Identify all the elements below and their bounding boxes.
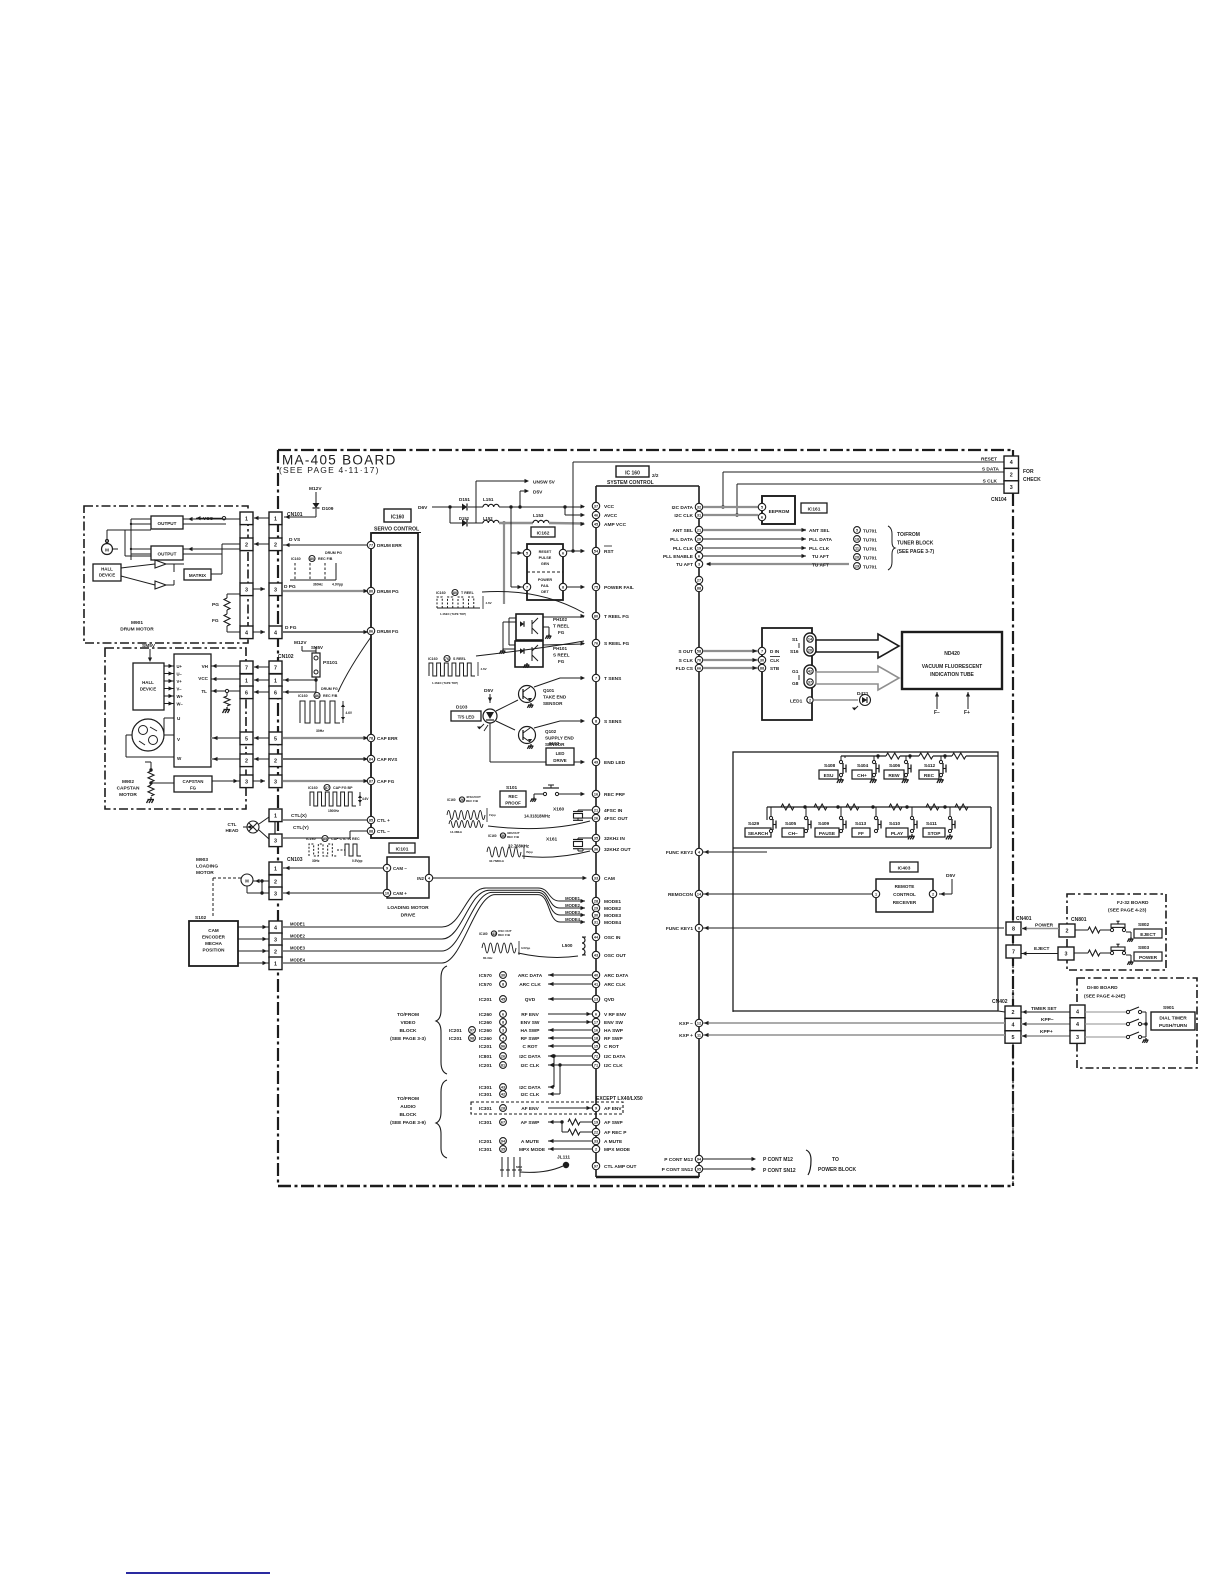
svg-text:1: 1 (274, 678, 277, 684)
svg-text:VIDEO: VIDEO (401, 1020, 416, 1026)
svg-text:31: 31 (594, 921, 598, 925)
svg-text:28: 28 (594, 900, 598, 904)
svg-text:PAUSE: PAUSE (819, 831, 836, 837)
wire T REEL FG (543, 616, 584, 618)
svg-text:30: 30 (594, 914, 598, 918)
svg-text:GEN: GEN (541, 562, 549, 566)
svg-text:IC160: IC160 (391, 515, 405, 521)
svg-text:CTL(Y): CTL(Y) (293, 825, 309, 831)
svg-text:9: 9 (386, 867, 388, 871)
svg-text:4: 4 (245, 630, 248, 636)
svg-text:75: 75 (594, 586, 598, 590)
svg-text:16: 16 (594, 1029, 598, 1033)
wire CAP RVS (283, 758, 367, 760)
svg-text:IC201: IC201 (479, 1044, 492, 1050)
svg-text:ARC DATA: ARC DATA (518, 973, 543, 979)
arc drum FG to waveform (338, 637, 371, 692)
svg-text:35: 35 (594, 837, 598, 841)
svg-text:L500: L500 (562, 943, 573, 948)
svg-text:S REEL: S REEL (453, 657, 467, 661)
svg-text:RF SWP: RF SWP (521, 1036, 540, 1042)
TL pulldown resistor (225, 689, 228, 692)
svg-text:CAM: CAM (604, 876, 615, 882)
svg-text:43: 43 (492, 932, 496, 936)
IC162 label (531, 527, 555, 537)
svg-text:D VS: D VS (289, 537, 301, 543)
svg-text:45: 45 (594, 523, 598, 527)
svg-text:PLL CLK: PLL CLK (809, 546, 830, 552)
svg-text:43: 43 (501, 1086, 505, 1090)
hollow arrow S bus (816, 634, 899, 658)
svg-text:5: 5 (274, 736, 277, 742)
svg-text:71: 71 (594, 1064, 598, 1068)
svg-text:MODE2: MODE2 (604, 906, 621, 912)
svg-text:T/S LED: T/S LED (458, 715, 475, 720)
svg-text:PLL ENABLE: PLL ENABLE (663, 554, 694, 560)
svg-text:49: 49 (594, 761, 598, 765)
svg-text:Q102: Q102 (545, 729, 557, 734)
svg-text:IC201: IC201 (479, 1063, 492, 1069)
svg-text:S101: S101 (506, 785, 518, 791)
svg-text:S408: S408 (824, 763, 836, 769)
svg-text:26: 26 (460, 798, 464, 802)
mode wires 1-4 (283, 888, 585, 927)
svg-text:MP2: MP2 (516, 1165, 523, 1169)
hall device box (drum) (93, 564, 121, 581)
svg-text:IC403: IC403 (898, 866, 911, 872)
POWER FAIL wire (567, 586, 584, 588)
svg-text:AF SWP: AF SWP (521, 1120, 540, 1126)
svg-text:IC801: IC801 (479, 1054, 492, 1060)
S102 wires to connector (238, 926, 269, 928)
svg-text:FF: FF (858, 831, 864, 837)
svg-text:DIAL TIMER: DIAL TIMER (1159, 1016, 1187, 1022)
capstan motor wires (164, 734, 174, 736)
svg-text:FG: FG (212, 618, 219, 624)
G pins stadium (804, 665, 816, 688)
svg-text:FG: FG (558, 659, 565, 664)
connector MODE pins (269, 921, 282, 934)
svg-text:28: 28 (501, 1107, 505, 1111)
connector column CN102 board-side (269, 661, 282, 674)
UNSW 5V branch (475, 481, 477, 523)
svg-text:S16: S16 (790, 649, 799, 655)
svg-text:RF ENV: RF ENV (521, 1012, 539, 1018)
svg-text:87: 87 (369, 780, 373, 784)
svg-text:66: 66 (697, 667, 701, 671)
svg-text:TU701: TU701 (863, 565, 877, 570)
svg-text:CAP RVS: CAP RVS (377, 757, 397, 762)
svg-text:AF ENV: AF ENV (604, 1106, 622, 1112)
svg-text:D6V: D6V (418, 505, 428, 511)
svg-text:CN801: CN801 (1071, 917, 1087, 923)
svg-text:MODE3: MODE3 (565, 910, 581, 915)
svg-text:DRUM FG: DRUM FG (377, 629, 399, 634)
svg-text:5: 5 (1012, 1035, 1015, 1041)
svg-text:TO/FROM: TO/FROM (397, 1012, 419, 1018)
svg-text:I2C CLK: I2C CLK (521, 1063, 540, 1069)
svg-text:43: 43 (594, 954, 598, 958)
svg-text:6: 6 (562, 552, 564, 556)
svg-text:32.768KHz: 32.768KHz (489, 859, 505, 863)
svg-text:V+: V+ (177, 679, 183, 684)
svg-text:ARC CLK: ARC CLK (519, 982, 541, 988)
svg-text:X161: X161 (546, 837, 558, 843)
connector CN103 (269, 862, 282, 875)
svg-text:IC160: IC160 (479, 932, 488, 936)
svg-text:7: 7 (526, 586, 528, 590)
svg-text:TU701: TU701 (863, 538, 877, 543)
svg-text:AUDIO: AUDIO (400, 1104, 416, 1110)
svg-text:V: V (177, 737, 181, 742)
svg-text:PH102: PH102 (553, 617, 567, 622)
svg-text:OUTPUT: OUTPUT (158, 552, 177, 557)
capstan motor symbol (132, 719, 164, 751)
svg-text:FLD CS: FLD CS (676, 666, 694, 672)
svg-text:IC301: IC301 (479, 1085, 492, 1091)
svg-text:POWER: POWER (538, 578, 553, 582)
svg-text:EJECT: EJECT (1140, 932, 1156, 938)
svg-text:T REEL: T REEL (553, 624, 570, 629)
svg-text:1: 1 (274, 516, 277, 522)
footer blue rule (126, 1572, 270, 1574)
svg-text:21: 21 (594, 809, 598, 813)
key box to timer set wire (732, 1011, 734, 1012)
svg-text:W+: W+ (177, 694, 184, 699)
svg-text:96: 96 (501, 1045, 505, 1049)
svg-text:IC160: IC160 (291, 557, 301, 561)
svg-text:ND420: ND420 (944, 651, 960, 657)
svg-text:DEVICE: DEVICE (99, 573, 115, 578)
svg-text:ARC DATA: ARC DATA (604, 973, 629, 979)
led to sensor wires (496, 700, 518, 711)
video block brace (436, 966, 447, 1074)
svg-text:TO/FROM: TO/FROM (897, 532, 920, 538)
svg-text:2: 2 (1066, 929, 1069, 935)
svg-text:S REEL: S REEL (553, 653, 570, 658)
svg-text:TO/FROM: TO/FROM (397, 1096, 419, 1102)
svg-text:S SENS: S SENS (604, 719, 622, 725)
svg-text:12: 12 (697, 1022, 701, 1026)
opto input wires (509, 617, 516, 619)
svg-text:95: 95 (697, 1168, 701, 1172)
svg-text:EEPROM: EEPROM (769, 509, 790, 515)
wire I2C CLK to EEPROM (gray) (703, 514, 758, 516)
svg-text:REC F/B: REC F/B (318, 557, 333, 561)
svg-text:4.6V: 4.6V (362, 797, 369, 801)
svg-text:L151: L151 (483, 497, 494, 502)
svg-text:RESET: RESET (539, 550, 552, 554)
IC403 label (890, 862, 918, 872)
svg-text:4FSC IN: 4FSC IN (604, 808, 623, 814)
svg-text:26: 26 (501, 1055, 505, 1059)
svg-text:4: 4 (274, 630, 277, 636)
svg-text:LED: LED (556, 751, 565, 756)
svg-text:MECHA: MECHA (205, 941, 223, 946)
svg-text:DRUM PG: DRUM PG (325, 551, 342, 555)
svg-text:IC160: IC160 (488, 834, 497, 838)
svg-text:PG: PG (212, 602, 219, 608)
svg-text:1.4SEC (TAPE TOP): 1.4SEC (TAPE TOP) (440, 612, 466, 616)
svg-text:AF REC P: AF REC P (604, 1130, 627, 1136)
svg-text:REC F/B: REC F/B (498, 933, 511, 937)
svg-text:4FSC OUT: 4FSC OUT (604, 816, 628, 822)
svg-text:10: 10 (385, 892, 389, 896)
svg-text:S410: S410 (889, 821, 901, 827)
svg-text:1: 1 (274, 866, 277, 872)
svg-text:AMP VCC: AMP VCC (604, 522, 627, 528)
svg-text:M12V: M12V (294, 640, 307, 646)
svg-text:A MUTE: A MUTE (604, 1139, 623, 1145)
svg-text:P CONT M12: P CONT M12 (664, 1157, 693, 1163)
output amp box 1 (151, 516, 183, 529)
svg-text:KPP−: KPP− (1041, 1017, 1054, 1023)
svg-text:PLAY: PLAY (891, 831, 904, 837)
svg-text:IC201: IC201 (479, 1139, 492, 1145)
svg-text:REC PRF: REC PRF (604, 792, 625, 798)
svg-text:DEVICE: DEVICE (140, 687, 156, 692)
svg-text:76: 76 (445, 657, 449, 661)
key row1 bus risers (877, 756, 879, 759)
svg-text:37: 37 (594, 505, 598, 509)
svg-text:85: 85 (323, 837, 327, 841)
svg-text:P CONT M12: P CONT M12 (763, 1157, 793, 1163)
svg-text:IC201: IC201 (449, 1028, 462, 1034)
svg-text:F+: F+ (964, 710, 970, 716)
transistor Q101 (519, 686, 536, 703)
audio block brace (436, 1080, 447, 1158)
power rail 2 (D152/L152) (449, 507, 451, 523)
svg-text:UNSW 5V: UNSW 5V (533, 480, 556, 486)
svg-text:MATRIX: MATRIX (189, 573, 207, 578)
svg-text:36: 36 (501, 834, 505, 838)
svg-text:3: 3 (245, 779, 248, 785)
svg-text:IC160: IC160 (436, 591, 446, 595)
svg-text:3: 3 (274, 891, 277, 897)
svg-text:ESU: ESU (824, 773, 834, 779)
svg-text:18: 18 (594, 1037, 598, 1041)
svg-text:CONTROL: CONTROL (893, 892, 916, 897)
svg-text:AVCC: AVCC (604, 513, 618, 519)
svg-text:8: 8 (1012, 927, 1015, 933)
wire I2C DATA to EEPROM (gray) (703, 506, 758, 508)
svg-text:14.3MHz: 14.3MHz (450, 830, 463, 834)
svg-text:S412: S412 (924, 763, 936, 769)
IC162 reset/power-fail block (527, 544, 563, 600)
svg-text:REMOCON: REMOCON (668, 892, 694, 898)
buffer amp triangle 2 (155, 581, 166, 589)
hall outputs U+..W- (164, 665, 174, 667)
svg-text:HEAD: HEAD (225, 828, 239, 833)
svg-text:SENSOR: SENSOR (543, 701, 563, 706)
key row2 box (767, 806, 991, 808)
svg-text:TO: TO (832, 1157, 839, 1163)
svg-text:IC160: IC160 (306, 837, 316, 841)
svg-text:6: 6 (595, 1013, 597, 1017)
svg-text:IC160: IC160 (308, 786, 318, 790)
svg-text:F−: F− (934, 710, 940, 716)
svg-text:13: 13 (594, 998, 598, 1002)
svg-text:FJ-32 BOARD: FJ-32 BOARD (1117, 900, 1149, 906)
svg-text:MPX MODE: MPX MODE (519, 1147, 546, 1153)
svg-text:POWER: POWER (1035, 923, 1054, 929)
D5V branch (519, 491, 521, 507)
power block bracket (806, 1150, 811, 1175)
svg-text:85: 85 (369, 819, 373, 823)
svg-text:4: 4 (1010, 460, 1013, 466)
P CONT SN12 row (703, 1168, 755, 1170)
svg-text:EJECT: EJECT (1034, 946, 1050, 952)
svg-text:6: 6 (502, 1013, 504, 1017)
svg-text:LED1: LED1 (790, 699, 803, 705)
svg-text:33: 33 (594, 877, 598, 881)
svg-text:8: 8 (562, 586, 564, 590)
svg-text:TU AFT: TU AFT (812, 563, 829, 569)
opto PH102 (516, 614, 543, 640)
svg-text:ANT SEL: ANT SEL (809, 528, 830, 534)
key matrix outer box (733, 752, 998, 1011)
svg-text:4.6V: 4.6V (481, 667, 487, 671)
svg-text:CN104: CN104 (991, 497, 1007, 503)
svg-text:IC260: IC260 (479, 1012, 492, 1018)
svg-text:L152: L152 (483, 516, 493, 521)
svg-text:26: 26 (594, 817, 598, 821)
key row2 resistors (781, 804, 794, 810)
S102 cam encoder box (189, 921, 238, 966)
svg-text:1: 1 (274, 813, 277, 819)
drum wires left cluster (183, 518, 241, 520)
svg-text:3: 3 (274, 838, 277, 844)
IC 160 2/2 label (616, 466, 649, 477)
connector column motor-side CN101 pins 1-4 (240, 512, 253, 525)
svg-text:3: 3 (1065, 952, 1068, 958)
svg-text:IC301: IC301 (479, 1106, 492, 1112)
svg-text:KPP+: KPP+ (1040, 1029, 1053, 1035)
svg-text:21: 21 (697, 529, 701, 533)
svg-text:88: 88 (369, 830, 373, 834)
svg-text:IC201: IC201 (449, 1036, 462, 1042)
svg-text:30Hz: 30Hz (312, 859, 320, 863)
i2c crosslink video (552, 1054, 555, 1057)
system control block outline (596, 485, 699, 487)
buffer amp triangle 1 (155, 560, 166, 568)
svg-text:36: 36 (594, 848, 598, 852)
svg-text:RF SWP: RF SWP (604, 1036, 623, 1042)
svg-text:DRIVE: DRIVE (401, 913, 416, 919)
svg-text:CH−: CH− (788, 831, 798, 837)
svg-text:FUNC KEY2: FUNC KEY2 (666, 850, 694, 856)
key row1 bus (841, 755, 886, 757)
svg-text:22: 22 (594, 1131, 598, 1135)
svg-text:TU AFT: TU AFT (812, 554, 829, 560)
svg-text:TUNER BLOCK: TUNER BLOCK (897, 541, 934, 547)
svg-text:81: 81 (501, 1064, 505, 1068)
svg-text:11: 11 (855, 547, 859, 551)
svg-text:PS101: PS101 (323, 660, 338, 666)
svg-text:2: 2 (595, 1148, 597, 1152)
svg-text:6: 6 (698, 555, 700, 559)
svg-text:RST: RST (604, 549, 614, 555)
output amp box 2 (151, 546, 183, 560)
svg-text:OUTPUT: OUTPUT (158, 521, 177, 526)
svg-text:CAPSTAN: CAPSTAN (183, 779, 204, 784)
svg-text:POWER BLOCK: POWER BLOCK (818, 1167, 856, 1173)
svg-text:S404: S404 (857, 763, 869, 769)
svg-text:4.9Vpp: 4.9Vpp (332, 583, 343, 587)
svg-text:CTL AMP OUT: CTL AMP OUT (604, 1164, 636, 1170)
svg-text:(SEE PAGE 4-11·17): (SEE PAGE 4-11·17) (279, 465, 380, 475)
svg-text:D151: D151 (459, 497, 470, 502)
svg-text:S CLK: S CLK (679, 658, 694, 664)
svg-text:CAP ERR: CAP ERR (377, 736, 398, 741)
svg-text:IC 160: IC 160 (625, 471, 640, 477)
svg-text:8: 8 (502, 983, 504, 987)
wire AVCC branch (564, 507, 566, 515)
svg-text:DRUM PG: DRUM PG (377, 589, 399, 594)
svg-text:41: 41 (594, 983, 598, 987)
svg-text:STB: STB (770, 666, 780, 671)
svg-text:16: 16 (594, 793, 598, 797)
tuner pins TU701 (854, 527, 861, 534)
svg-text:8: 8 (502, 1021, 504, 1025)
svg-text:67: 67 (501, 1121, 505, 1125)
svg-text:17: 17 (594, 1021, 598, 1025)
svg-text:3: 3 (502, 1029, 504, 1033)
svg-text:1.4SEC (TAPE TOP): 1.4SEC (TAPE TOP) (432, 681, 458, 685)
svg-text:30: 30 (760, 659, 764, 663)
svg-text:FOR: FOR (1023, 469, 1034, 475)
svg-text:JL111: JL111 (557, 1155, 570, 1161)
svg-text:IN2: IN2 (417, 876, 424, 881)
hall device box (capstan) (133, 663, 164, 710)
capstan motor M902 enclosure (dash-dot) (105, 648, 246, 809)
svg-text:3: 3 (1010, 485, 1013, 491)
svg-text:76: 76 (594, 642, 598, 646)
DI-80 connector column (1070, 1005, 1085, 1018)
svg-text:D PG: D PG (284, 584, 296, 590)
PS101 wires (315, 677, 317, 680)
svg-text:REMOTE: REMOTE (895, 884, 915, 889)
svg-text:SYSTEM CONTROL: SYSTEM CONTROL (607, 480, 654, 486)
svg-text:4: 4 (1012, 1023, 1015, 1029)
svg-text:CAM: CAM (208, 928, 219, 933)
svg-text:3: 3 (1076, 1035, 1079, 1041)
IC101 label (389, 843, 415, 853)
svg-text:REC: REC (924, 773, 935, 779)
svg-text:27: 27 (697, 579, 701, 583)
svg-text:DI-80 BOARD: DI-80 BOARD (1087, 985, 1118, 991)
svg-text:2: 2 (274, 758, 277, 764)
svg-text:S405: S405 (785, 821, 797, 827)
svg-text:TAKE END: TAKE END (543, 695, 567, 700)
svg-text:PROOF: PROOF (505, 801, 521, 806)
svg-text:MODE1: MODE1 (290, 922, 306, 927)
svg-text:MODE1: MODE1 (604, 899, 621, 905)
svg-text:FAIL: FAIL (541, 584, 550, 588)
svg-text:REC F/B: REC F/B (466, 799, 479, 803)
key row2 grounds (911, 834, 913, 836)
svg-text:5: 5 (856, 529, 858, 533)
svg-text:1500Hz: 1500Hz (328, 809, 339, 813)
svg-text:M: M (245, 879, 249, 884)
IC160 servo label (384, 509, 411, 522)
svg-text:IC570: IC570 (479, 982, 492, 988)
tuner block wires (703, 529, 806, 531)
svg-text:IC301: IC301 (479, 1092, 492, 1098)
svg-text:U+: U+ (177, 664, 183, 669)
svg-text:2: 2 (809, 699, 811, 703)
capstan FG wire (212, 780, 240, 782)
